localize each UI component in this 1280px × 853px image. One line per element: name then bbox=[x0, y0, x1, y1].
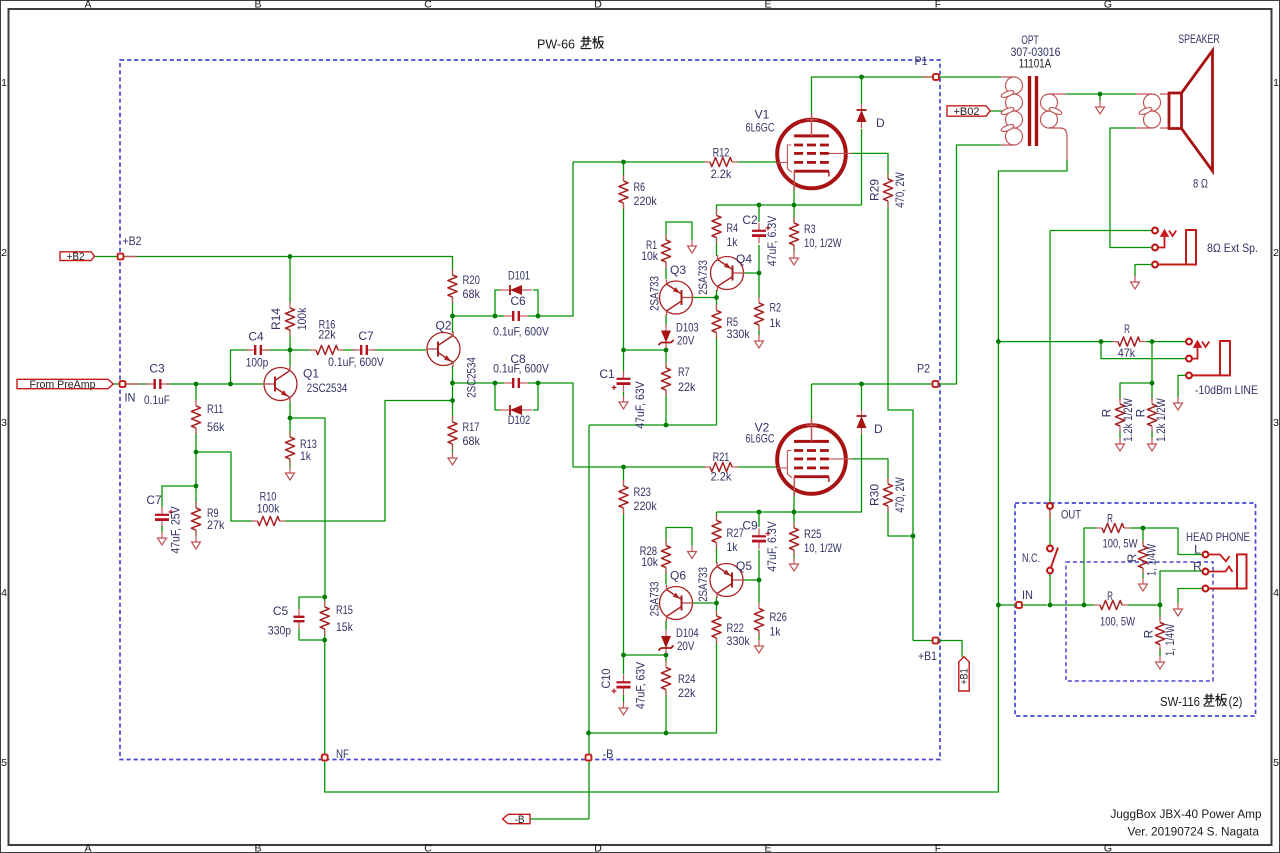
svg-text:-B: -B bbox=[515, 814, 525, 826]
wire Q2 emitter node bbox=[452, 366, 454, 383]
capacitor C7 film bbox=[352, 345, 376, 355]
hierarchical label -B bbox=[503, 814, 530, 826]
speaker coil leads bbox=[1136, 94, 1169, 128]
ground at R25 bbox=[790, 558, 799, 571]
SW-116 board title bbox=[1160, 695, 1243, 709]
resistor R30 bbox=[868, 477, 908, 513]
svg-text:20V: 20V bbox=[677, 639, 694, 653]
svg-text:D: D bbox=[594, 843, 602, 853]
junction Q2 emitter/C8 bbox=[450, 381, 455, 386]
wire R26 bottom bbox=[758, 631, 760, 640]
junction R6/C1 bbox=[621, 348, 626, 353]
8 ohm ext jack switch arrow bbox=[1158, 231, 1176, 248]
junction 47k right/divider bbox=[1150, 339, 1155, 344]
transistor Q4 bbox=[711, 255, 745, 291]
svg-text:D: D bbox=[594, 0, 602, 11]
wire headphone node up to R contact bbox=[1160, 571, 1203, 605]
svg-text:B: B bbox=[254, 843, 261, 853]
wire driver ground rail V2 bbox=[589, 732, 717, 734]
wire node to L contact bbox=[1143, 528, 1203, 555]
resistor R 1.2k left bbox=[1100, 398, 1136, 442]
svg-text:R23: R23 bbox=[634, 485, 652, 499]
resistor R29 bbox=[868, 172, 908, 208]
junction Q4 base/C2/R2 bbox=[757, 271, 762, 276]
svg-text:E: E bbox=[764, 843, 771, 853]
svg-text:R: R bbox=[1100, 408, 1114, 417]
port P1 bbox=[933, 74, 939, 80]
wire branch node to R 100 5W lower bbox=[1084, 604, 1094, 606]
wire R12 to V1 g1 bbox=[737, 161, 778, 163]
svg-text:47uF, 63V: 47uF, 63V bbox=[634, 662, 648, 709]
svg-text:+B1: +B1 bbox=[918, 649, 937, 663]
svg-text:47k: 47k bbox=[1118, 346, 1136, 360]
capacitor C4 bbox=[246, 345, 270, 355]
wire OPT secondary top to speaker coil bbox=[1066, 93, 1136, 95]
svg-text:1, 1/4W: 1, 1/4W bbox=[1163, 624, 1177, 656]
junction C6 branch right bbox=[536, 314, 541, 319]
wire R24 bottom to rail bbox=[665, 690, 667, 733]
svg-text:R: R bbox=[1142, 629, 1156, 638]
svg-text:47uF, 6.3V: 47uF, 6.3V bbox=[765, 521, 779, 572]
svg-text:G: G bbox=[1104, 0, 1112, 11]
svg-text:C: C bbox=[424, 0, 432, 11]
wire lower 100 5W to headphone node bbox=[1128, 604, 1160, 606]
wire R14 top branch bbox=[289, 257, 291, 304]
wire C2 top to cathode rail bbox=[758, 205, 760, 222]
svg-text:470, 2W: 470, 2W bbox=[893, 477, 907, 513]
svg-text:330p: 330p bbox=[268, 624, 291, 638]
junction R11/NFB bbox=[194, 450, 199, 455]
wire R9 top bbox=[195, 486, 197, 508]
wire Q5 base to node bbox=[744, 579, 760, 581]
resistor R13 bbox=[285, 431, 317, 465]
resistor R21 bbox=[704, 450, 738, 484]
resistor R7 bbox=[661, 362, 696, 396]
wire R29 bottom long drop to +B1 bbox=[888, 201, 913, 641]
wire R27 top from cathode rail bbox=[716, 512, 718, 520]
junction rail/-B riser bbox=[586, 731, 591, 736]
wire R4 top to cathode rail bbox=[717, 205, 862, 215]
wire R9 bottom bbox=[195, 530, 197, 536]
wire C9 bottom to node bbox=[758, 550, 760, 580]
svg-text:8Ω Ext Sp.: 8Ω Ext Sp. bbox=[1207, 241, 1258, 255]
wire R6 top bbox=[623, 162, 625, 181]
svg-text:R: R bbox=[1134, 408, 1148, 417]
svg-text:100, 5W: 100, 5W bbox=[1103, 537, 1139, 551]
kanji 基 of SW-116 title bbox=[1204, 694, 1215, 707]
svg-text:C10: C10 bbox=[599, 668, 613, 688]
resistor R5 bbox=[712, 305, 751, 342]
port +B1 bbox=[933, 638, 939, 644]
wire cathode rail riser to D bbox=[861, 129, 863, 205]
svg-text:220k: 220k bbox=[634, 499, 658, 513]
junction C9/cathode rail bbox=[757, 510, 762, 515]
ground at R1 bbox=[688, 240, 697, 253]
svg-text:SPEAKER: SPEAKER bbox=[1178, 32, 1220, 46]
wire switch node to branch node bbox=[1050, 604, 1084, 606]
capacitor C7 electrolytic bbox=[155, 507, 173, 528]
OPT primary winding bbox=[1001, 77, 1014, 145]
wire C1 node to D103 node bbox=[624, 349, 667, 351]
junction line-out tap bbox=[996, 339, 1001, 344]
wire R 47k to line jack tip bbox=[1146, 341, 1186, 343]
wire V2 grid row to R21 bbox=[573, 466, 705, 468]
svg-text:C6: C6 bbox=[510, 294, 526, 308]
resistor R 1 1/4W lower bbox=[1142, 617, 1178, 656]
8 ohm ext speaker jack body bbox=[1158, 230, 1196, 265]
wire upper 100 5W to node bbox=[1130, 527, 1143, 529]
svg-text:OUT: OUT bbox=[1061, 508, 1082, 522]
wire +B2 rail to R20 bbox=[94, 257, 453, 276]
diode D102 bbox=[500, 405, 532, 415]
port +B2 bbox=[118, 254, 124, 260]
junction R20/Q2 collector bbox=[450, 314, 455, 319]
wire speaker feed line to OUT bbox=[1049, 231, 1051, 504]
wire R24 top bbox=[665, 655, 667, 662]
svg-text:0.1uF, 600V: 0.1uF, 600V bbox=[493, 325, 549, 339]
junction C8 branch right bbox=[536, 381, 541, 386]
svg-text:V1: V1 bbox=[755, 108, 770, 122]
wire Q4 collector to node bbox=[716, 290, 718, 298]
junction R14/R16/Q1 collector bbox=[288, 348, 293, 353]
svg-text:R24: R24 bbox=[678, 672, 696, 686]
svg-text:3: 3 bbox=[1, 417, 7, 429]
svg-text:P2: P2 bbox=[917, 362, 930, 376]
wire R15 top bbox=[324, 597, 326, 607]
svg-text:2SA733: 2SA733 bbox=[648, 276, 662, 311]
wire C6 right to V1 grid riser bbox=[528, 162, 573, 316]
svg-text:100p: 100p bbox=[246, 356, 269, 370]
port IN SW-116 bbox=[1016, 602, 1022, 608]
wire R14 bottom to node bbox=[289, 330, 291, 350]
svg-text:IN: IN bbox=[1022, 588, 1033, 602]
svg-text:C2: C2 bbox=[742, 213, 758, 227]
junction C2/cathode rail bbox=[757, 203, 762, 208]
wire node to R16 bbox=[290, 349, 311, 351]
svg-text:C4: C4 bbox=[248, 330, 264, 344]
port P2 bbox=[933, 381, 939, 387]
transistor Q1 bbox=[263, 366, 297, 402]
PW-66 board title bbox=[537, 38, 575, 52]
wire R25 bottom bbox=[793, 550, 795, 558]
svg-text:R20: R20 bbox=[463, 273, 481, 287]
wire Q4 emitter to R4 bbox=[716, 238, 718, 256]
headphone jack body bbox=[1209, 554, 1247, 588]
wire emitter node to R17 node bbox=[452, 383, 454, 401]
svg-text:0.1uF, 600V: 0.1uF, 600V bbox=[328, 355, 384, 369]
svg-text:C: C bbox=[424, 843, 432, 853]
wire line jack sleeve to ground bbox=[1178, 375, 1186, 397]
transistor Q3 bbox=[660, 280, 694, 316]
junction C6 branch left bbox=[493, 314, 498, 319]
svg-text:E: E bbox=[764, 0, 771, 11]
resistor R9 bbox=[191, 502, 225, 536]
svg-text:F: F bbox=[935, 0, 941, 11]
svg-text:R14: R14 bbox=[269, 308, 283, 330]
wire Q2 collector bbox=[452, 316, 454, 333]
wire V1 plate to P1 row bbox=[812, 77, 1002, 114]
junction Q5 base/C9/R26 bbox=[757, 578, 762, 583]
svg-text:R15: R15 bbox=[336, 603, 353, 617]
title block text bbox=[1111, 807, 1262, 839]
wire D to P1 node bbox=[861, 77, 863, 104]
wire C2 bottom to node bbox=[758, 245, 760, 273]
resistor R3 bbox=[789, 217, 842, 251]
resistor R14 bbox=[269, 302, 309, 336]
svg-text:C9: C9 bbox=[742, 519, 758, 533]
svg-text:JuggBox JBX-40 Power Amp: JuggBox JBX-40 Power Amp bbox=[1111, 807, 1262, 821]
svg-text:56k: 56k bbox=[207, 420, 225, 434]
resistor R11 bbox=[191, 400, 225, 434]
resistor R25 bbox=[789, 522, 842, 556]
switch N.C. contacts and lever bbox=[1047, 546, 1058, 574]
kanji 基 of PW-66 title bbox=[581, 36, 592, 49]
wire R1 top to ground hook bbox=[666, 222, 692, 240]
wire R2 bottom bbox=[758, 326, 760, 335]
wire -B hier connection bbox=[530, 818, 589, 820]
speaker SPEAKER symbol bbox=[1169, 51, 1213, 172]
vacuum tube V1 6L6GC bbox=[746, 108, 852, 191]
svg-text:4: 4 bbox=[1, 587, 7, 599]
wire R6 bottom to C1 node bbox=[623, 203, 625, 350]
wire R15 bottom bbox=[324, 629, 326, 640]
junction R9/C7 bbox=[194, 484, 199, 489]
wire C5 branch bottom bbox=[299, 629, 325, 640]
junction R23/C10 bbox=[621, 653, 626, 658]
wire right 1.2k top bbox=[1151, 383, 1153, 400]
hierarchical label +B1 vertical bbox=[959, 657, 971, 691]
wire V2 g2 to R30 bbox=[851, 459, 888, 484]
diode D at V1 bbox=[857, 104, 867, 128]
resistor R20 bbox=[448, 269, 481, 303]
ground at C1 bbox=[619, 396, 628, 409]
wire R7 top bbox=[665, 350, 667, 368]
wire NF feedback line down and across bbox=[325, 160, 1067, 792]
wire +B1 port row bbox=[913, 641, 962, 658]
wire Q4 base to node bbox=[744, 272, 760, 274]
wire V2 plate lead bbox=[811, 384, 813, 420]
svg-text:10, 1/2W: 10, 1/2W bbox=[804, 541, 842, 555]
hierarchical label +B02 bbox=[947, 106, 990, 118]
wire R11 top bbox=[195, 384, 197, 402]
svg-text:2SC2534: 2SC2534 bbox=[307, 381, 348, 395]
wire upper 1 ohm top bbox=[1142, 528, 1144, 546]
wire C6 left plate lead bbox=[495, 315, 504, 317]
svg-text:3: 3 bbox=[1273, 417, 1279, 429]
junction Q3 base/R5 bbox=[714, 295, 719, 300]
wire R30 bottom to +B1 riser bbox=[888, 506, 913, 536]
wire speaker coil bottom to ext jack ring bbox=[1110, 128, 1151, 248]
svg-text:2: 2 bbox=[1273, 247, 1279, 259]
resistor R17 bbox=[448, 416, 481, 450]
svg-text:2SC2534: 2SC2534 bbox=[465, 357, 479, 398]
ground at C7 electrolytic bbox=[158, 532, 167, 545]
ground at right 1.2k bbox=[1148, 438, 1157, 451]
svg-text:PW-66: PW-66 bbox=[537, 38, 575, 52]
svg-text:+B02: +B02 bbox=[954, 106, 980, 118]
transformer OPT core bbox=[1030, 76, 1037, 146]
junction C8 branch left bbox=[493, 381, 498, 386]
wire driver ground rail V1 bbox=[589, 424, 717, 426]
svg-text:D: D bbox=[874, 422, 883, 436]
svg-text:1: 1 bbox=[1273, 77, 1279, 89]
OPT primary loops bbox=[1000, 77, 1022, 145]
wire V1 g2 to R29 bbox=[851, 153, 888, 179]
wire +B02 to primary center tap bbox=[990, 110, 1007, 112]
headphone sleeve contact bbox=[1203, 586, 1209, 592]
svg-text:N.C.: N.C. bbox=[1022, 551, 1040, 565]
resistor R 47k bbox=[1112, 322, 1146, 360]
svg-text:R25: R25 bbox=[804, 527, 822, 541]
svg-text:100, 5W: 100, 5W bbox=[1100, 615, 1136, 629]
resistor R28 bbox=[640, 540, 671, 574]
svg-text:5: 5 bbox=[1, 757, 7, 769]
ground at upper 1 ohm bbox=[1139, 578, 1148, 591]
wire Q3 base to node bbox=[693, 297, 717, 299]
resistor R 1.2k right bbox=[1134, 398, 1169, 442]
svg-text:470, 2W: 470, 2W bbox=[893, 172, 907, 208]
svg-text:SW-116: SW-116 bbox=[1160, 695, 1200, 709]
capacitor C1 bbox=[612, 371, 631, 392]
svg-text:G: G bbox=[1104, 843, 1112, 853]
junction V1 cathode/R3 bbox=[792, 203, 797, 208]
8 ohm ext jack ring contact bbox=[1152, 245, 1158, 251]
wire D103 bottom bbox=[665, 348, 667, 350]
junction R24/rail bbox=[664, 731, 669, 736]
svg-text:Q4: Q4 bbox=[736, 252, 752, 266]
hierarchical label From PreAmp bbox=[17, 379, 113, 391]
junction C5/R15 top bbox=[322, 595, 327, 600]
wire R25 top bbox=[793, 512, 795, 528]
SW-116 inner resistor-block dashed outline bbox=[1066, 562, 1213, 681]
headphone R switch mark bbox=[1209, 567, 1233, 573]
junction Q1 emitter/R13 bbox=[288, 416, 293, 421]
wire V1 grid row to R12 bbox=[573, 161, 705, 163]
svg-text:C3: C3 bbox=[149, 362, 165, 376]
speaker coil loops bbox=[1138, 94, 1160, 128]
svg-text:15k: 15k bbox=[336, 620, 354, 634]
resistor R4 bbox=[712, 210, 738, 250]
wire C8 branch left vertical bbox=[495, 383, 500, 410]
wire R11 bottom to node bbox=[195, 429, 197, 486]
svg-text:11101A: 11101A bbox=[1019, 57, 1051, 71]
svg-text:68k: 68k bbox=[463, 287, 481, 301]
wire C1 bottom bbox=[623, 392, 625, 396]
wire R17 top bbox=[452, 401, 454, 423]
capacitor C3 bbox=[146, 379, 170, 389]
wire Q5 collector to node bbox=[716, 597, 718, 603]
junction 47k left/ring bbox=[1099, 339, 1104, 344]
ground at C10 bbox=[619, 702, 628, 715]
svg-text:2: 2 bbox=[1, 247, 7, 259]
junction D104/R24 bbox=[664, 653, 669, 658]
wire SW-116 IN row bbox=[998, 604, 1015, 606]
wire C10 top bbox=[623, 655, 625, 674]
svg-text:NF: NF bbox=[336, 747, 349, 761]
svg-text:1.2k 1/2W: 1.2k 1/2W bbox=[1121, 398, 1135, 442]
resistor R 100 5W upper bbox=[1096, 512, 1138, 551]
wire right 1.2k bottom bbox=[1151, 430, 1153, 438]
zener D104 bbox=[659, 630, 674, 654]
svg-text:Q2: Q2 bbox=[435, 319, 451, 333]
wire R1 bottom to Q3 emitter bbox=[665, 262, 667, 279]
wire OUT contact to switch top bbox=[1049, 509, 1051, 546]
svg-text:IN: IN bbox=[125, 391, 136, 405]
line out jack body bbox=[1192, 341, 1230, 375]
wire Q6 collector to D104 bbox=[665, 621, 667, 631]
svg-text:R: R bbox=[1107, 512, 1113, 526]
svg-text:P1: P1 bbox=[915, 54, 928, 68]
red stub below OUT contact bbox=[1049, 510, 1051, 520]
wire P2 to OPT primary bottom bbox=[952, 145, 1001, 384]
wire Q3 collector to D103 bbox=[665, 315, 667, 325]
8 ohm ext jack tip contact bbox=[1152, 228, 1158, 234]
vacuum tube V2 6L6GC bbox=[746, 419, 852, 496]
wire R5 top node bbox=[716, 298, 718, 311]
hierarchical label +B2 bbox=[60, 251, 95, 263]
wire Q2 emitter to C8/D102 branch bbox=[453, 382, 496, 384]
svg-text:R6: R6 bbox=[634, 180, 646, 194]
diode D101 bbox=[500, 285, 532, 295]
capacitor C5 bbox=[294, 609, 305, 629]
wire V1 cathode lead bbox=[793, 183, 795, 205]
svg-text:F: F bbox=[935, 843, 941, 853]
svg-text:R12: R12 bbox=[713, 146, 730, 160]
svg-text:47uF, 6.3V: 47uF, 6.3V bbox=[765, 216, 779, 267]
wire Q5 emitter to R27 bbox=[716, 543, 718, 563]
wire C8 branch right vertical bbox=[533, 383, 538, 410]
svg-text:D103: D103 bbox=[676, 321, 699, 335]
wire C7 electrolytic branch bbox=[162, 486, 196, 507]
svg-text:20V: 20V bbox=[677, 334, 694, 348]
resistor R10 bbox=[252, 490, 286, 526]
wire secondary top ground stub bbox=[1099, 94, 1101, 101]
svg-text:Ver. 20190724 S. Nagata: Ver. 20190724 S. Nagata bbox=[1128, 825, 1260, 839]
capacitor C9 bbox=[752, 528, 770, 549]
wire C10 bottom bbox=[623, 695, 625, 702]
junction R7/rail bbox=[664, 423, 669, 428]
transistor Q2 bbox=[426, 331, 460, 367]
svg-text:10, 1/2W: 10, 1/2W bbox=[804, 236, 842, 250]
wire V2 cathode lead bbox=[793, 488, 795, 512]
ground at R3 bbox=[790, 252, 799, 265]
svg-text:R11: R11 bbox=[207, 402, 223, 416]
wire R20 bottom to Q2 collector node bbox=[452, 297, 454, 316]
resistor R15 bbox=[320, 601, 354, 635]
svg-text:1, 1/4W: 1, 1/4W bbox=[1145, 544, 1159, 576]
port -B bbox=[586, 755, 592, 761]
ground at ext speaker jack bbox=[1131, 276, 1140, 289]
wire R3 top bbox=[793, 205, 795, 223]
OPT primary top lead arc bbox=[1014, 77, 1023, 86]
wire R10 to Q2 emitter node bbox=[285, 401, 453, 522]
svg-text:2SA733: 2SA733 bbox=[696, 567, 710, 602]
svg-text:2.2k: 2.2k bbox=[711, 167, 733, 181]
svg-text:4: 4 bbox=[1273, 587, 1279, 599]
junction C5/R15 bottom bbox=[322, 638, 327, 643]
svg-text:1k: 1k bbox=[300, 449, 312, 463]
ground at line jack sleeve bbox=[1174, 397, 1183, 410]
ground at R2 bbox=[755, 335, 764, 348]
svg-text:6L6GC: 6L6GC bbox=[746, 432, 775, 446]
svg-text:1k: 1k bbox=[727, 540, 739, 554]
svg-text:1k: 1k bbox=[727, 235, 739, 249]
wire R16 to C7 film bbox=[343, 349, 356, 351]
wire Q6 base to node bbox=[693, 602, 717, 604]
OPT secondary winding bbox=[1049, 94, 1067, 160]
ground at OPT secondary bbox=[1096, 101, 1105, 114]
headphone R contact bbox=[1203, 569, 1209, 575]
